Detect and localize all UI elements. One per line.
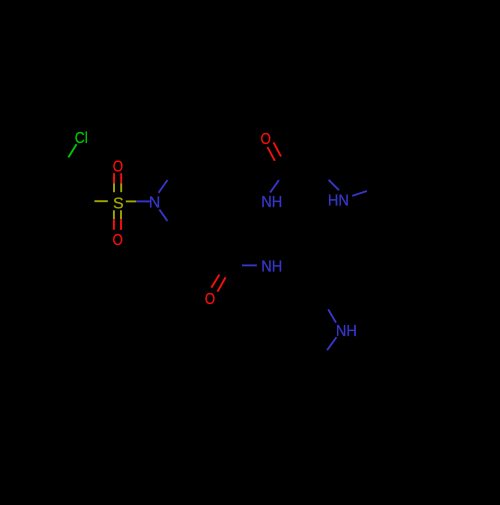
bond S=O bottom line1 yellow half: [113, 210, 115, 219]
bond C-NH indole up-left (blue half): [329, 180, 339, 190]
bond C=O amide1 line2 (red half): [274, 142, 282, 156]
svg-text:NH: NH: [336, 323, 357, 340]
bond N-C ring down-right (blue half): [159, 210, 167, 221]
bond C=O amide2 line2 (red half): [218, 277, 226, 291]
bond C-NH indoline up-left (blue half): [328, 309, 336, 322]
svg-text:N: N: [149, 195, 161, 212]
svg-text:HN: HN: [328, 193, 349, 210]
bond S=O bottom line2 red half: [120, 219, 122, 230]
bond S=O bottom line1 red half: [113, 219, 115, 230]
svg-text:S: S: [113, 196, 124, 213]
bond N-C ring up-right (blue half): [159, 180, 168, 193]
bond C=O amide1 line1 (red half): [267, 147, 275, 161]
svg-text:O: O: [261, 131, 271, 148]
bond S=O top line2 red half: [120, 173, 122, 183]
bond S=O top line2 yellow half: [120, 183, 122, 192]
bond C=O amide2 line1 (red half): [211, 275, 219, 288]
bond S-N blue half: [136, 200, 150, 202]
svg-text:O: O: [113, 158, 123, 175]
bond S=O bottom line2 yellow half: [120, 210, 122, 219]
bond S=O top line1 yellow half: [113, 183, 115, 192]
bond N-C amide1 (blue half): [270, 180, 279, 193]
bond C-S left (yellow half): [94, 200, 107, 202]
svg-text:O: O: [113, 232, 123, 249]
svg-text:Cl: Cl: [75, 130, 88, 147]
bond Cl-CH2 (green half): [68, 144, 76, 157]
bond NH-C indoline down-left (blue half): [327, 337, 336, 350]
svg-text:NH: NH: [261, 194, 282, 211]
svg-text:O: O: [205, 291, 215, 308]
bond C-N amide2 (blue half): [242, 264, 257, 266]
bond NH-C indole up-right (blue half): [352, 191, 367, 196]
svg-text:NH: NH: [261, 258, 282, 275]
bond S-N yellow half: [126, 200, 137, 202]
bond S=O top line1 red half: [113, 173, 115, 183]
